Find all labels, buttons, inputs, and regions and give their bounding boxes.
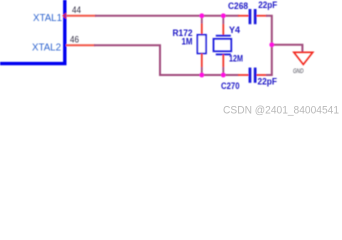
junction at R172 bottom <box>199 73 204 78</box>
R172 pin 2 <box>201 53 203 67</box>
C268 pin 1 <box>238 15 249 17</box>
IC U1 outline <box>0 0 65 64</box>
R172 top net stub <box>201 15 203 24</box>
junction at Y4 bottom <box>221 73 226 78</box>
R172 pin 1 <box>201 24 203 36</box>
Y4 pin 2 <box>222 54 224 67</box>
svg-text:22pF: 22pF <box>258 77 278 87</box>
C268 pin 2 <box>257 15 268 17</box>
svg-text:C268: C268 <box>228 1 248 11</box>
Y4 bottom electrode plate <box>216 53 231 55</box>
Y4 top electrode plate <box>216 35 231 37</box>
resistor R172 <box>197 15 206 76</box>
R172 bottom net stub <box>201 67 203 76</box>
wire GND net right side vertical <box>266 16 272 75</box>
svg-text:GND: GND <box>293 68 304 75</box>
svg-text:CSDN @2401_84004541: CSDN @2401_84004541 <box>223 105 339 117</box>
svg-text:44: 44 <box>72 5 81 16</box>
capacitor C270 <box>238 68 267 83</box>
C268 plate 2 <box>254 9 257 24</box>
C270 pin 1 <box>238 74 249 76</box>
svg-text:C270: C270 <box>221 81 240 91</box>
pin 46 <box>66 44 95 46</box>
R172 body box <box>197 35 206 54</box>
Y4 top net stub <box>222 15 224 24</box>
junction at R172 top <box>199 13 204 18</box>
Y4 body box <box>214 39 232 52</box>
Y4 pin 1 <box>222 24 224 36</box>
svg-text:Y4: Y4 <box>229 25 240 35</box>
junction at GND branch <box>269 42 274 47</box>
svg-text:1M: 1M <box>182 37 193 47</box>
C270 pin 2 <box>257 74 268 76</box>
svg-text:12M: 12M <box>229 53 243 63</box>
crystal Y4 <box>214 15 232 76</box>
pin 44 <box>66 15 96 17</box>
wire GND branch to symbol <box>272 45 303 53</box>
C270 plate 2 <box>254 68 257 83</box>
C270 plate 1 <box>249 68 252 83</box>
junction at Y4 top <box>221 13 226 18</box>
wire XTAL2 net: horizontal, corner down, bottom run <box>94 45 239 75</box>
ground symbol triangle <box>294 52 313 64</box>
C268 plate 1 <box>249 9 252 24</box>
pin 44 edge chevron <box>63 13 66 18</box>
svg-text:46: 46 <box>70 34 79 45</box>
svg-text:XTAL2: XTAL2 <box>32 43 61 54</box>
capacitor C268 <box>238 9 267 24</box>
svg-text:XTAL1: XTAL1 <box>33 13 62 24</box>
svg-text:22pF: 22pF <box>258 0 277 10</box>
wire XTAL1 net horizontal <box>95 15 239 17</box>
Y4 bottom net stub <box>222 67 224 76</box>
